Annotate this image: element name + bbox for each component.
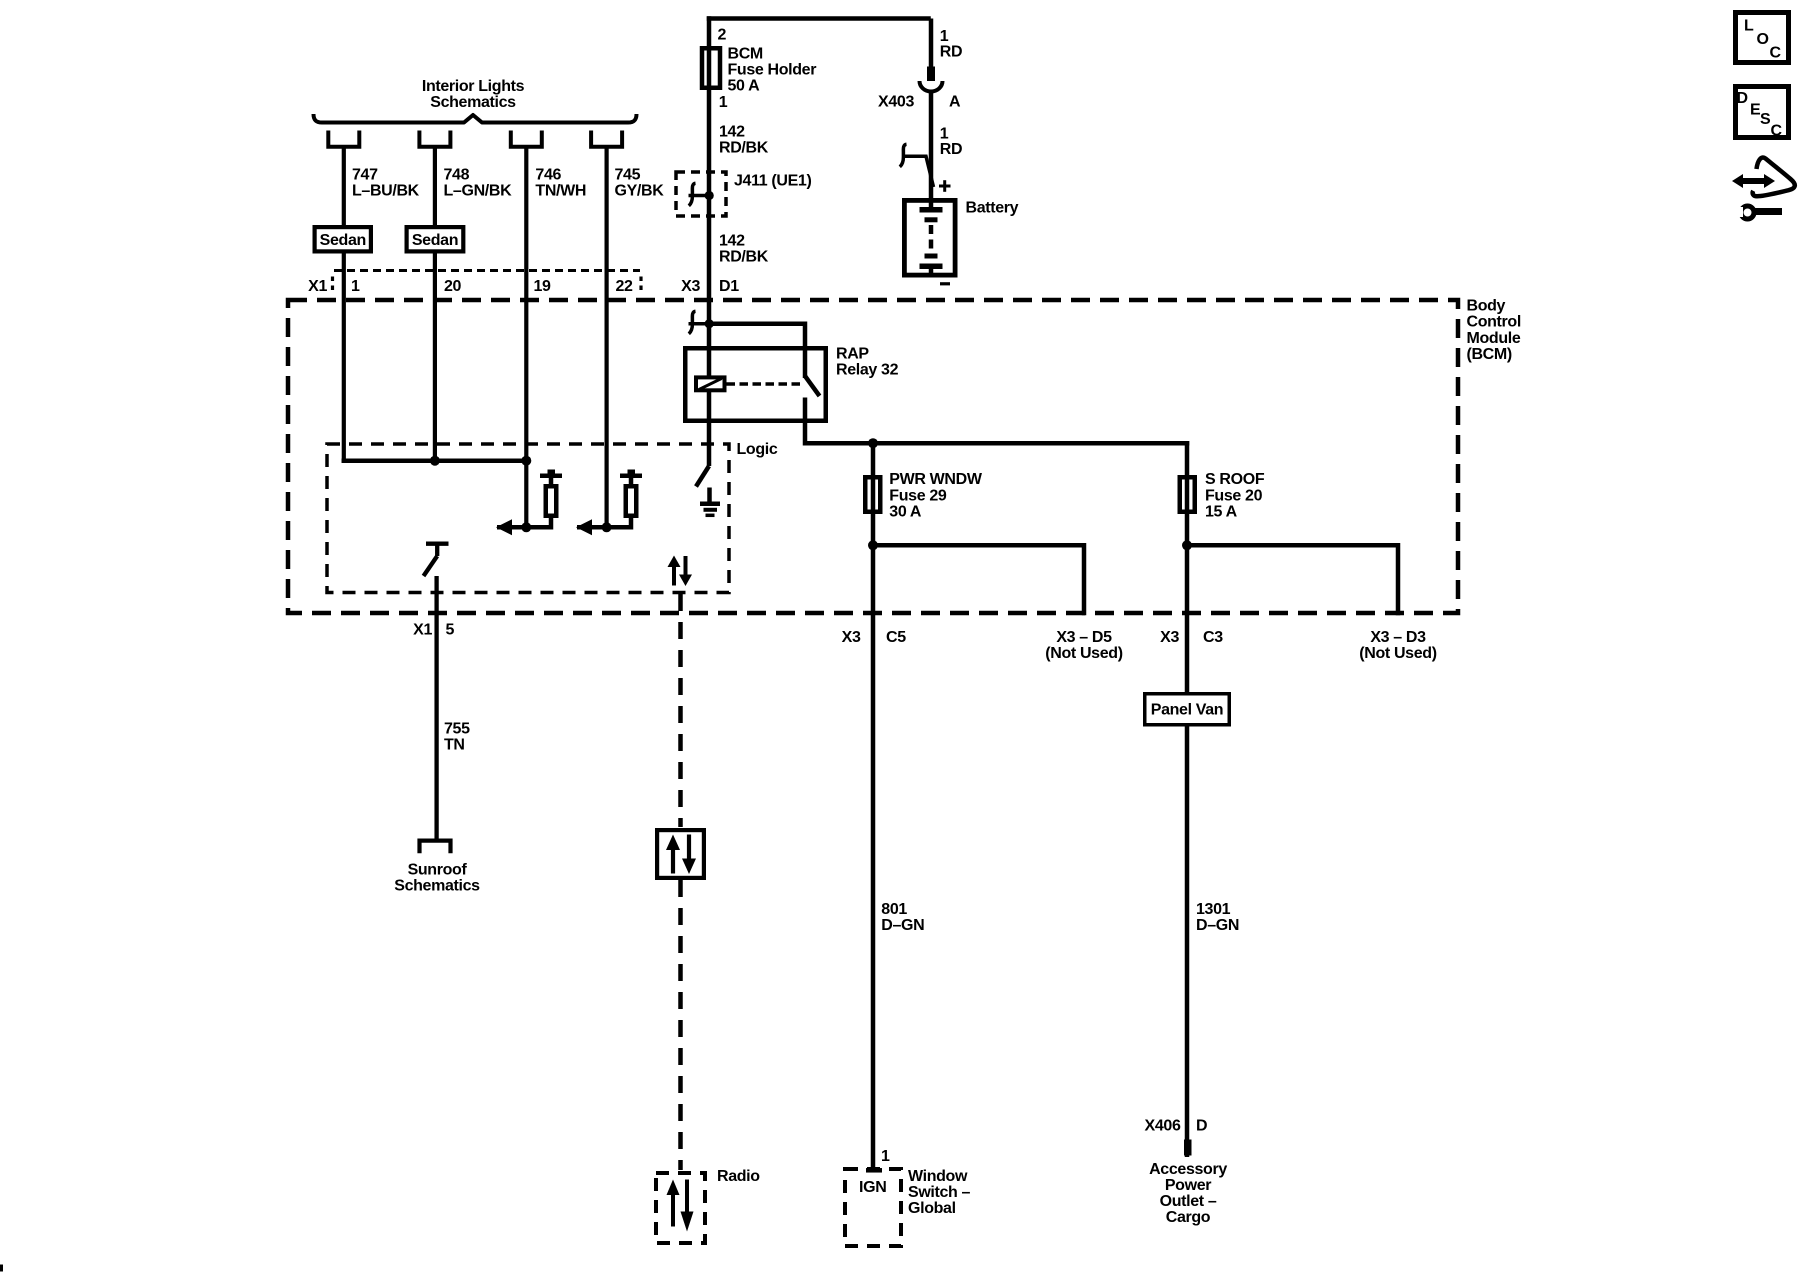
minus sign — [940, 282, 950, 285]
radio down arrow — [681, 1180, 694, 1232]
label Body Control Module (BCM) — [1467, 298, 1521, 364]
svg-text:A: A — [949, 94, 961, 111]
wire 746 TN/WH — [524, 147, 528, 530]
wire 801 D-GN column — [871, 441, 876, 1170]
svg-text:C: C — [1771, 123, 1783, 140]
svg-text:1: 1 — [881, 1148, 890, 1165]
svg-text:RD/BK: RD/BK — [719, 248, 769, 265]
logic switch blade — [696, 466, 709, 487]
svg-text:Switch –: Switch – — [908, 1184, 971, 1201]
relay coil — [696, 377, 725, 390]
svg-text:X3 – D3: X3 – D3 — [1370, 629, 1426, 646]
svg-text:RD: RD — [940, 141, 962, 158]
label 142 RD/BK lower — [719, 232, 769, 265]
svg-text:RD/BK: RD/BK — [719, 140, 769, 157]
svg-text:X1: X1 — [413, 622, 432, 639]
label 745 GY/BK — [615, 167, 665, 200]
svg-text:RAP: RAP — [836, 346, 869, 363]
svg-text:Accessory: Accessory — [1149, 1161, 1227, 1178]
svg-text:1: 1 — [719, 94, 728, 111]
connector half-box wire 747 — [328, 131, 359, 147]
window switch IGN dashed box — [845, 1169, 901, 1246]
wire 142 RD/BK main — [707, 16, 712, 326]
svg-text:RD: RD — [940, 44, 962, 61]
svg-text:1: 1 — [351, 278, 360, 295]
svg-text:746: 746 — [535, 167, 561, 184]
node junction D5 stub — [868, 540, 878, 550]
node junction D1 — [705, 319, 714, 328]
wire X3-D3 stub — [1187, 545, 1398, 615]
svg-text:(BCM): (BCM) — [1467, 346, 1512, 363]
icon DESC — [1736, 87, 1789, 140]
sunroof connector bracket — [420, 841, 451, 854]
label Sunroof Schematics — [394, 862, 480, 895]
connector X1 left tick — [331, 277, 334, 295]
wire 1 RD upper — [929, 19, 934, 69]
svg-text:Cargo: Cargo — [1166, 1209, 1211, 1226]
node junction 746-bus — [521, 456, 531, 466]
svg-text:S: S — [1760, 111, 1771, 128]
svg-text:BCM: BCM — [728, 46, 763, 63]
svg-text:Fuse Holder: Fuse Holder — [728, 62, 817, 79]
ground — [700, 488, 720, 516]
resistor R2 — [620, 470, 642, 530]
svg-text:Relay 32: Relay 32 — [836, 362, 899, 379]
page corner mark — [0, 1265, 3, 1272]
Panel Van box — [1145, 694, 1230, 725]
svg-text:IGN: IGN — [859, 1179, 886, 1196]
svg-text:Sedan: Sedan — [320, 232, 366, 249]
svg-text:30 A: 30 A — [889, 504, 922, 521]
svg-text:20: 20 — [444, 278, 462, 295]
icon LOC — [1736, 13, 1789, 63]
inner logic dashed box — [327, 444, 729, 593]
top bus wire — [707, 16, 931, 21]
relay output bus wire — [805, 441, 1189, 446]
svg-text:Logic: Logic — [737, 441, 778, 458]
svg-text:19: 19 — [534, 278, 552, 295]
label 801 D-GN — [881, 901, 924, 934]
svg-text:Schematics: Schematics — [430, 94, 516, 111]
svg-text:GY/BK: GY/BK — [615, 183, 665, 200]
fuse PWR WNDW Fuse 29 30 A — [865, 477, 880, 512]
label PWR WNDW Fuse 29 30 A — [889, 471, 983, 521]
label X406 pin D — [1145, 1118, 1208, 1135]
brace under header — [314, 114, 637, 123]
svg-text:D: D — [1196, 1118, 1207, 1135]
svg-text:(Not Used): (Not Used) — [1045, 645, 1122, 662]
Sedan box 2 — [407, 227, 464, 251]
label 748 L-GN/BK — [444, 167, 513, 200]
svg-text:1: 1 — [940, 28, 949, 45]
svg-text:J411 (UE1): J411 (UE1) — [734, 172, 811, 189]
svg-text:D–GN: D–GN — [881, 917, 924, 934]
svg-text:801: 801 — [881, 901, 907, 918]
label Accessory Power Outlet - Cargo — [1149, 1161, 1227, 1226]
svg-text:Schematics: Schematics — [394, 878, 480, 895]
svg-text:X403: X403 — [878, 94, 914, 111]
node junction fuse29 tap — [868, 438, 878, 448]
svg-text:C3: C3 — [1203, 629, 1223, 646]
arrowhead left 746 — [496, 519, 512, 535]
svg-text:142: 142 — [719, 232, 745, 249]
fuse S ROOF Fuse 20 15 A — [1180, 477, 1195, 512]
BCM outer dashed box — [288, 300, 1458, 613]
svg-text:Power: Power — [1165, 1177, 1211, 1194]
logic down arrow — [679, 556, 692, 586]
battery — [904, 200, 955, 275]
svg-text:(Not Used): (Not Used) — [1359, 645, 1436, 662]
wire 745 GY/BK — [604, 147, 608, 530]
svg-text:748: 748 — [444, 167, 470, 184]
connector X403 socket — [920, 81, 943, 92]
label X3 C3 — [1160, 629, 1223, 646]
wire 1301 D-GN column — [1185, 441, 1190, 1157]
connector J411 dashed box — [676, 172, 726, 216]
label X1 pin 5 — [413, 622, 454, 639]
svg-text:C5: C5 — [886, 629, 906, 646]
svg-text:X3 – D5: X3 – D5 — [1056, 629, 1112, 646]
node splice J411 — [705, 191, 714, 200]
connector half-box wire 746 — [511, 131, 542, 147]
connector X1 right tick — [639, 277, 642, 295]
wire to relay switch — [709, 324, 805, 378]
svg-text:Radio: Radio — [717, 1168, 760, 1185]
header label: Interior Lights Schematics — [422, 78, 525, 111]
node junction D3 stub — [1182, 540, 1192, 550]
svg-text:22: 22 — [616, 278, 634, 295]
svg-text:Sunroof: Sunroof — [408, 862, 468, 879]
label 747 L-BU/BK — [352, 167, 420, 200]
label 1 RD lower — [940, 126, 962, 159]
connector half-box wire 748 — [419, 131, 450, 147]
svg-text:O: O — [1757, 31, 1769, 48]
svg-text:Fuse 29: Fuse 29 — [889, 488, 947, 505]
svg-text:Battery: Battery — [966, 199, 1019, 216]
svg-text:15 A: 15 A — [1205, 504, 1238, 521]
svg-text:X3: X3 — [1160, 629, 1179, 646]
fuse BCM Fuse Holder 50 A — [702, 48, 720, 88]
splice hook at D1 — [689, 311, 696, 334]
svg-text:50 A: 50 A — [728, 78, 761, 95]
wire relay coil feed — [707, 324, 712, 466]
label S ROOF Fuse 20 15 A — [1205, 471, 1265, 521]
svg-text:Global: Global — [908, 1200, 956, 1217]
svg-text:PWR WNDW: PWR WNDW — [889, 471, 983, 488]
relay RAP Relay 32 box — [685, 348, 826, 421]
wiper arrow wire 745 — [577, 525, 631, 530]
resistor R1 — [540, 470, 562, 530]
svg-text:747: 747 — [352, 167, 378, 184]
svg-text:Body: Body — [1467, 298, 1506, 315]
svg-text:Fuse 20: Fuse 20 — [1205, 488, 1263, 505]
svg-text:Outlet –: Outlet – — [1160, 1193, 1217, 1210]
svg-text:1301: 1301 — [1196, 901, 1231, 918]
radio up arrow — [667, 1180, 680, 1227]
wire 747 L-BU/BK — [342, 147, 346, 463]
radio dashed box — [656, 1173, 705, 1243]
svg-text:Window: Window — [908, 1168, 968, 1185]
node junction 746-arrow — [521, 522, 531, 532]
wire 755 TN — [434, 576, 438, 839]
svg-text:X406: X406 — [1145, 1118, 1181, 1135]
radio dashed wire upper — [678, 594, 683, 827]
label RAP Relay 32 — [836, 346, 899, 379]
label 1301 D-GN — [1196, 901, 1239, 934]
svg-text:Module: Module — [1467, 330, 1521, 347]
svg-text:142: 142 — [719, 124, 745, 141]
label BCM Fuse Holder 50 A — [728, 46, 817, 95]
sunroof switch S1 — [424, 544, 449, 576]
svg-text:1: 1 — [940, 126, 949, 143]
svg-text:755: 755 — [444, 721, 470, 738]
label 1 RD upper — [940, 28, 962, 61]
svg-text:S ROOF: S ROOF — [1205, 471, 1265, 488]
connector half-box wire 745 — [591, 131, 622, 147]
svg-text:Control: Control — [1467, 314, 1521, 331]
svg-text:L: L — [1744, 18, 1754, 35]
node junction 748-bus — [430, 456, 440, 466]
label X3 C5 — [842, 629, 907, 646]
svg-text:D: D — [1737, 90, 1748, 107]
svg-text:L–GN/BK: L–GN/BK — [444, 183, 513, 200]
svg-text:Interior Lights: Interior Lights — [422, 78, 525, 95]
label Window Switch - Global — [908, 1168, 971, 1217]
wire 748 L-GN/BK — [433, 147, 437, 463]
relay switch contact — [803, 398, 808, 446]
splice hook J411 — [689, 183, 696, 206]
label X3 - D5 (Not Used) — [1045, 629, 1122, 662]
window motor box — [657, 830, 704, 878]
arrowhead left 745 — [576, 519, 592, 535]
svg-text:X3: X3 — [681, 278, 700, 295]
logic up arrow — [668, 556, 681, 586]
svg-text:5: 5 — [446, 622, 455, 639]
icon swap arrows with wrench — [1732, 157, 1795, 219]
relay dashed actuation link — [727, 382, 801, 386]
svg-text:C: C — [1770, 44, 1782, 61]
svg-text:TN: TN — [444, 737, 465, 754]
svg-text:X1: X1 — [308, 278, 327, 295]
label 755 TN — [444, 721, 470, 754]
svg-text:D1: D1 — [719, 278, 739, 295]
node junction 745-arrow — [602, 522, 612, 532]
splice hook battery feed — [900, 144, 907, 167]
terminal bar window switch — [866, 1168, 882, 1173]
wiper arrow wire 746 — [497, 525, 551, 530]
svg-text:TN/WH: TN/WH — [535, 183, 586, 200]
svg-text:L–BU/BK: L–BU/BK — [352, 183, 420, 200]
svg-text:Panel Van: Panel Van — [1151, 702, 1223, 719]
label 142 RD/BK upper — [719, 124, 769, 157]
svg-text:2: 2 — [718, 27, 727, 44]
wire 1 RD lower — [929, 91, 934, 201]
connector X1 dotted line — [334, 269, 640, 272]
plus sign — [939, 180, 951, 192]
svg-text:745: 745 — [615, 167, 641, 184]
Sedan box 1 — [315, 227, 371, 251]
svg-text:X3: X3 — [842, 629, 861, 646]
radio dashed wire lower — [678, 880, 683, 1170]
relay switch blade — [805, 376, 820, 396]
svg-text:D–GN: D–GN — [1196, 917, 1239, 934]
label X3 - D3 (Not Used) — [1359, 629, 1436, 662]
terminal pin X403 — [927, 67, 935, 82]
label 746 TN/WH — [535, 167, 586, 200]
svg-text:Sedan: Sedan — [412, 232, 458, 249]
wire X3-D5 stub — [873, 545, 1084, 615]
terminal X406 — [1184, 1140, 1192, 1156]
interior lights bus wire — [342, 458, 527, 463]
